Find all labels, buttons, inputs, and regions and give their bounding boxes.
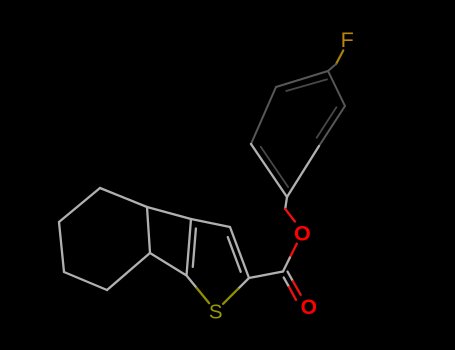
svg-text:O: O (301, 296, 317, 319)
svg-text:O: O (294, 221, 311, 245)
svg-text:S: S (209, 301, 223, 324)
svg-text:F: F (341, 28, 354, 52)
